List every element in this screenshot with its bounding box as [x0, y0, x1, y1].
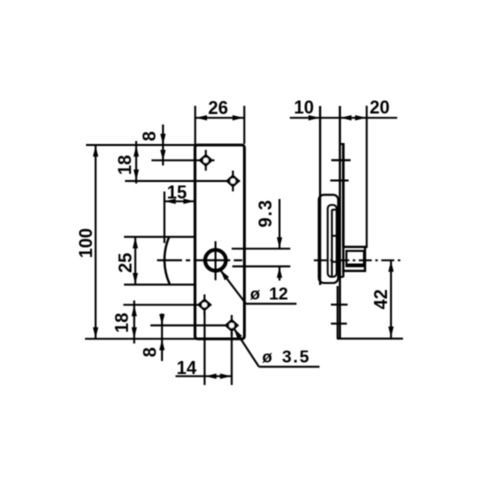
svg-text:26: 26	[208, 98, 228, 118]
svg-text:12: 12	[269, 284, 288, 304]
hole H1	[198, 150, 213, 171]
svg-text:20: 20	[370, 97, 390, 117]
extension line 25 bottom	[124, 284, 195, 286]
extension line bottom (100 dim) merging into plate bottom edge	[85, 338, 196, 340]
svg-text:18: 18	[115, 155, 135, 175]
dim 18 bottom line	[133, 301, 135, 344]
lower double line	[337, 286, 339, 339]
step below latch horizontal	[338, 276, 344, 278]
dim 9.3 line lower	[279, 267, 281, 281]
faceplate front line V1	[319, 106, 321, 285]
side hole tick 4	[331, 323, 347, 325]
extension line 25 top	[124, 236, 195, 238]
dim 14 line	[176, 375, 233, 377]
main circle hole (Ø12)	[205, 250, 226, 271]
dim 8 top line	[162, 125, 164, 166]
svg-text:18: 18	[112, 313, 132, 333]
latch bolt inner	[346, 251, 364, 266]
svg-text:3.5: 3.5	[282, 346, 311, 366]
side hole tick 1	[331, 159, 350, 161]
dim 26 extension right	[243, 106, 245, 144]
ext line H3 down	[204, 312, 206, 385]
cylinder cutout arc	[164, 237, 169, 284]
svg-text:25: 25	[115, 253, 135, 273]
side hole tick 2	[330, 179, 348, 181]
inner tick 3	[332, 261, 338, 263]
inner cap	[332, 209, 337, 211]
dim 15 line	[164, 200, 195, 202]
dim 26 line	[195, 117, 244, 119]
inner vertical line	[331, 210, 333, 277]
dim 42 line	[390, 260, 392, 338]
hole H1 centerline	[152, 159, 215, 161]
dim 10/20 line	[290, 117, 397, 119]
faceplate back line V2	[339, 106, 341, 339]
ext line H4 down	[231, 332, 233, 385]
svg-text:100: 100	[76, 228, 96, 258]
dim 9.3 extension bottom	[232, 265, 290, 267]
hole H2	[226, 171, 241, 192]
svg-text:9.3: 9.3	[256, 199, 276, 228]
svg-text:10: 10	[294, 98, 314, 118]
leader circle Ø12	[218, 268, 229, 280]
extension line 20 right	[366, 106, 368, 248]
side hole tick 3	[331, 304, 348, 306]
hole H4	[224, 315, 239, 336]
hole H3 centerline	[123, 304, 211, 306]
svg-text:8: 8	[140, 347, 160, 357]
hole H2 centerline	[125, 180, 240, 182]
svg-text:8: 8	[140, 131, 160, 141]
hole H3	[197, 294, 212, 315]
cylinder housing box 3	[328, 205, 337, 277]
svg-text:42: 42	[371, 289, 391, 309]
dim 26 extension left	[194, 106, 196, 144]
svg-text:14: 14	[176, 358, 196, 378]
svg-text:ø: ø	[262, 348, 272, 366]
circle vertical axis	[215, 241, 217, 280]
case front line V3	[342, 144, 345, 247]
side centerline (dash-dot)	[314, 259, 403, 261]
step below latch vertical	[342, 271, 344, 277]
side bottom line	[337, 338, 403, 340]
dim 9.3 extension top	[232, 248, 291, 250]
svg-text:15: 15	[167, 182, 187, 202]
plate outline front view	[195, 145, 244, 339]
extension line 15 vertical	[163, 192, 165, 244]
leader hole Ø3.5	[232, 327, 243, 339]
dim 100 line	[95, 145, 97, 338]
extension line top (100 dim) merging into plate top edge	[86, 144, 196, 146]
horizontal centerline through circle (dash-dot)	[157, 259, 182, 261]
latch bolt outer	[343, 247, 365, 271]
latch inner bottom emphasis	[346, 263, 364, 266]
dim 18 top line	[135, 141, 137, 184]
dim 25 line	[134, 237, 136, 284]
dim 9.3 line upper	[279, 199, 281, 248]
cylinder housing box 1	[319, 195, 338, 283]
V3 top cap	[340, 143, 345, 145]
hole H4 centerline	[150, 324, 233, 326]
svg-text:ø: ø	[250, 286, 260, 304]
dim 8 bottom line	[161, 314, 163, 362]
inner tick 2	[332, 235, 338, 237]
